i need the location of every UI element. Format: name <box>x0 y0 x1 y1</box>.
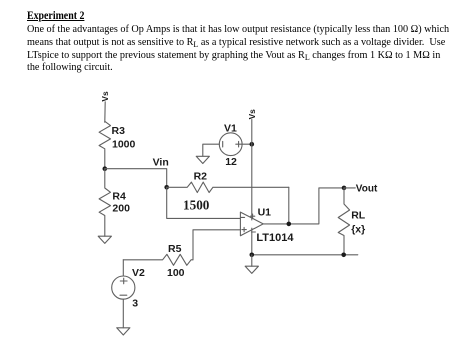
ground at V1 minus <box>196 156 209 163</box>
R2 ref label <box>194 171 208 183</box>
V1 value 12 <box>225 156 237 168</box>
R5 value 100 <box>167 267 185 279</box>
wire V1 minus to ground <box>203 144 220 156</box>
U1 ref label <box>258 207 272 219</box>
R5 ref label <box>168 243 182 255</box>
resistor R4 <box>99 169 110 237</box>
svg-text:Vout: Vout <box>356 184 378 195</box>
svg-text:100: 100 <box>167 267 185 279</box>
svg-text:1000: 1000 <box>112 139 136 151</box>
RL value {x} <box>351 224 365 236</box>
node Vs (left label) <box>100 91 110 102</box>
wire V2 top to R5 <box>122 260 124 276</box>
svg-text:R5: R5 <box>168 243 182 255</box>
R2 value 1500 <box>183 197 210 212</box>
node A junction dot <box>103 166 108 171</box>
wire bottom rail to ground <box>251 255 253 266</box>
resistor R3 <box>99 121 110 149</box>
op-amp U1 <box>240 212 263 236</box>
wire R2 right to output node (feedback) <box>288 187 290 224</box>
svg-text:R2: R2 <box>194 171 208 183</box>
wire Vs label to R3 top <box>104 102 106 123</box>
svg-text:Vin: Vin <box>153 157 169 169</box>
svg-text:R4: R4 <box>112 191 126 203</box>
V1 ref label <box>224 122 237 134</box>
bottom rail wire <box>252 254 358 256</box>
svg-text:Vs: Vs <box>247 109 257 120</box>
ground under bottom rail <box>245 266 258 273</box>
node Vs (right label) <box>247 109 257 120</box>
V2 value 3 <box>132 298 138 310</box>
node D junction dot (output/feedback) <box>287 222 292 227</box>
svg-text:R3: R3 <box>112 125 126 137</box>
resistor R2 <box>167 182 289 192</box>
voltage source V2 <box>112 276 135 299</box>
R4 ref label <box>112 191 126 203</box>
wire R5 right up to plus input <box>193 230 240 260</box>
wire node B down to minus input <box>167 187 241 218</box>
R3 ref label <box>112 125 126 137</box>
wire V1 plus to +Vs rail <box>242 143 252 145</box>
svg-text:200: 200 <box>112 203 130 215</box>
ground under R4 <box>98 236 111 243</box>
resistor R5 <box>123 254 193 265</box>
svg-text:LT1014: LT1014 <box>256 232 294 244</box>
node C junction dot (V1/rail) <box>250 142 255 147</box>
node E junction dot (V- / ground) <box>250 253 255 258</box>
svg-text:12: 12 <box>225 156 237 168</box>
node B junction dot (Vin/R2/minus-input) <box>164 185 169 190</box>
node F junction dot (RL bottom) <box>341 253 346 258</box>
node Vout junction dot <box>342 186 347 191</box>
R3 value 1000 <box>112 139 136 151</box>
svg-text:U1: U1 <box>258 207 272 219</box>
resistor RL <box>338 188 349 255</box>
voltage source V1 <box>219 133 242 156</box>
svg-text:{x}: {x} <box>351 224 365 236</box>
wire Vs rail to op-amp V+ pin <box>251 120 253 220</box>
wire V2 bottom to ground <box>122 299 124 328</box>
svg-text:Vs: Vs <box>100 91 110 102</box>
svg-text:V1: V1 <box>224 122 237 134</box>
node Vin label <box>153 157 169 169</box>
RL ref label <box>351 210 366 222</box>
wire Vout label flag <box>344 187 355 189</box>
svg-text:1500: 1500 <box>183 197 210 212</box>
U1 value LT1014 <box>256 232 294 244</box>
wire node A to Vin corner <box>105 169 167 188</box>
R4 value 200 <box>112 203 130 215</box>
svg-text:V2: V2 <box>132 267 145 279</box>
svg-text:RL: RL <box>351 210 366 222</box>
wire op-amp V- pin to bottom rail <box>251 228 253 255</box>
ground under V2 <box>117 328 130 335</box>
node Vout label <box>356 184 378 195</box>
V2 ref label <box>132 267 145 279</box>
svg-text:3: 3 <box>132 298 138 310</box>
wire op-amp output <box>263 188 344 224</box>
wire R3 bottom to node A <box>104 150 106 169</box>
